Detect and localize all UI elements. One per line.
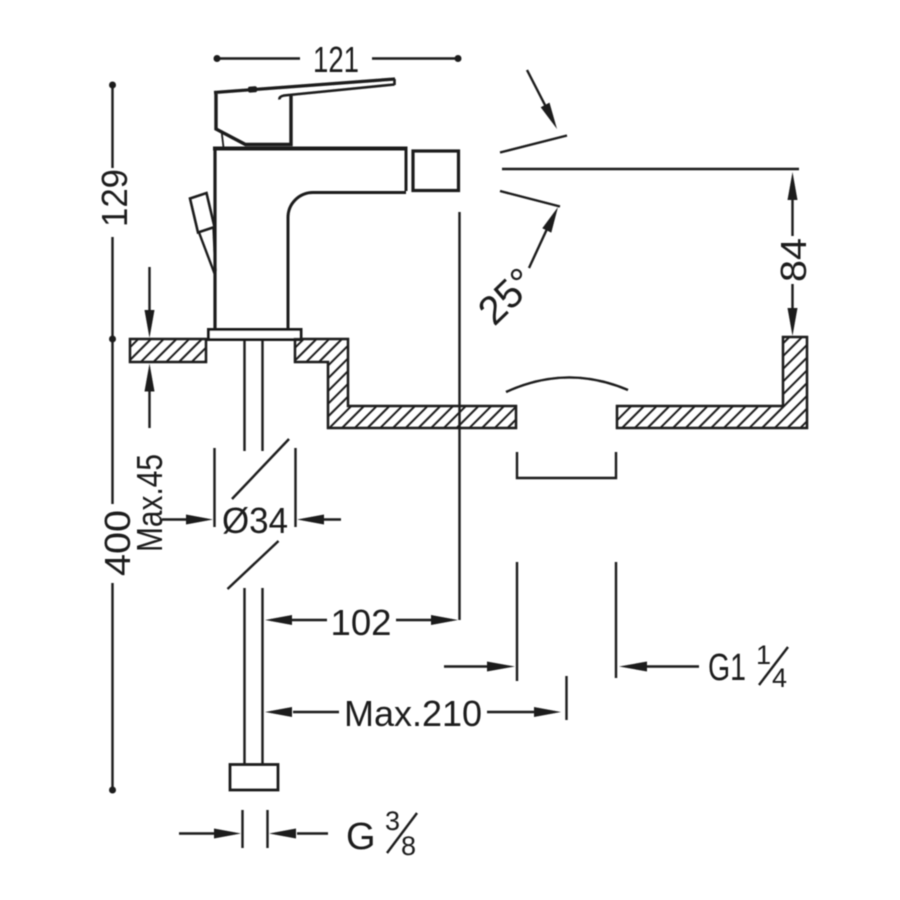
svg-text:G: G [346,816,376,858]
label 84 [773,238,814,282]
spout aerator tip [413,151,459,191]
deck left section (hatched) [130,339,206,362]
supply hose (lower segment) [245,588,263,764]
label G3/8 [346,806,417,861]
water stream reference line [502,168,799,170]
dimension Max.45 arrows [148,267,150,428]
angle arrow upper [527,70,557,129]
spout centerline extension [458,212,460,620]
spray line upper [500,136,567,153]
svg-text:121: 121 [313,39,359,80]
dimension Max.210 [293,676,567,720]
deck right section with wall (hatched) [617,337,807,428]
dimension O34 extension lines [215,448,296,527]
svg-text:Max.210: Max.210 [344,693,482,734]
svg-text:84: 84 [773,238,814,282]
label 25 deg [470,260,544,334]
label Max.45 [129,454,170,552]
basin bowl arc [506,377,628,392]
svg-text:102: 102 [331,602,392,643]
dimension G3/8 [179,810,328,848]
spray line lower [500,191,560,207]
drain tailpiece bracket [517,452,616,478]
faucet handle lever blade [214,79,395,100]
svg-text:Ø34: Ø34 [222,500,288,541]
svg-text:3: 3 [385,806,400,836]
svg-text:129: 129 [94,169,135,227]
faucet base plate [209,330,302,340]
label 400 [97,510,138,576]
label G1 1/4 [708,640,788,693]
dimension G1 1/4 arrows [444,665,699,667]
supply shank pipe (upper segment) [245,340,263,451]
faucet body block [213,147,408,329]
angle arrow lower [529,207,558,268]
label O34 [222,500,288,541]
drain pipe lines G1 1/4 [517,562,616,681]
dimension O34 arrows [162,518,341,520]
left vertical dimension line with dots [111,85,113,790]
dimension 84 [791,199,793,309]
svg-text:G1: G1 [708,647,746,689]
svg-text:8: 8 [401,831,416,861]
handle seam mark on top edge [248,86,257,93]
dimension 121 top [217,57,458,59]
svg-text:Max.45: Max.45 [129,454,170,552]
dimension 102 [292,619,432,621]
pipe break slash lower [228,541,279,589]
faucet handle cap body [216,94,291,148]
label 129 [94,169,135,227]
pipe break slash upper [232,439,289,499]
pop-up drain rod knob [190,193,216,274]
svg-text:1: 1 [756,640,771,670]
svg-text:4: 4 [772,663,787,693]
deck right-step section (hatched) [295,339,516,428]
hose end nut G3/8 [230,765,278,791]
